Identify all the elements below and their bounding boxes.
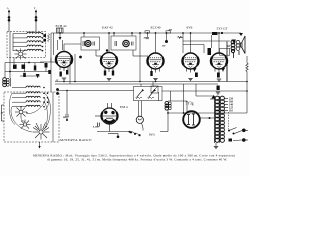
svg-text:EAF 42: EAF 42 xyxy=(102,26,113,30)
svg-text:6V6: 6V6 xyxy=(187,26,193,30)
svg-text:MINERVA RADIO: MINERVA RADIO xyxy=(59,138,92,142)
svg-text:2K: 2K xyxy=(144,38,147,40)
svg-text:AT: AT xyxy=(1,112,4,115)
svg-text:ECH 42: ECH 42 xyxy=(56,24,67,28)
svg-text:EM 4: EM 4 xyxy=(120,105,128,109)
svg-text:MF: MF xyxy=(63,117,67,119)
svg-text:ECC40: ECC40 xyxy=(151,26,161,30)
svg-text:AV: AV xyxy=(56,79,59,82)
svg-text:A: A xyxy=(7,7,9,10)
svg-text:5Y3 GT: 5Y3 GT xyxy=(217,27,229,31)
svg-text:0,1MF: 0,1MF xyxy=(93,127,100,129)
svg-text:6M A: 6M A xyxy=(149,134,155,137)
